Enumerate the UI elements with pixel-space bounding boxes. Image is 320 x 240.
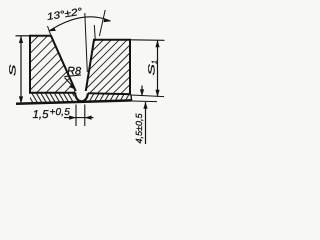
- left plate: [30, 36, 76, 93]
- angle leg line right: [99, 10, 105, 36]
- dimension S1 line: [157, 40, 159, 97]
- backing strip bottom edge extension right: [131, 100, 157, 103]
- plate top edge extension left: [16, 35, 31, 37]
- leader shelf R8: [65, 75, 82, 77]
- svg-text:1: 1: [152, 60, 159, 64]
- label S1: [147, 60, 159, 76]
- dimension S line: [20, 36, 22, 104]
- backing strip hatch right: [88, 94, 131, 103]
- strip top edge extension right: [131, 95, 164, 97]
- right groove face extension: [94, 25, 95, 41]
- plate top edge extension right: [130, 39, 165, 42]
- dimension 1,5 line: [64, 117, 94, 119]
- svg-text:4,5±0,5: 4,5±0,5: [134, 113, 144, 144]
- root notch in backing strip: [75, 91, 88, 101]
- arrow S1 top: [155, 40, 159, 47]
- arc arrow right: [104, 18, 111, 22]
- left groove face extension: [48, 26, 52, 36]
- label 1,5+0,5: [33, 107, 71, 121]
- dimension 1,5 extension line left: [75, 105, 77, 127]
- svg-text:R8: R8: [67, 66, 82, 78]
- arrow S1 bottom: [155, 90, 159, 97]
- arrow S bottom: [19, 96, 23, 103]
- arc arrow left: [49, 27, 56, 31]
- svg-text:S: S: [147, 64, 157, 75]
- angle dimension arc: [49, 17, 111, 31]
- joint centerline: [85, 13, 88, 72]
- svg-text:S: S: [8, 65, 18, 76]
- svg-text:1,5: 1,5: [33, 109, 50, 121]
- right plate: [86, 40, 130, 94]
- dimension 1,5 extension line right: [84, 105, 86, 127]
- dimension 4,5 upper arrow line: [141, 86, 143, 97]
- leader R8: [65, 78, 75, 89]
- dimension 4,5 lower arrow line: [145, 102, 147, 144]
- backing strip right edge: [130, 95, 133, 101]
- arrow S top: [19, 36, 23, 43]
- backing strip hatch left: [30, 93, 74, 103]
- svg-text:+0,5: +0,5: [50, 107, 71, 118]
- backing strip body: [30, 93, 131, 104]
- backing strip bottom edge: [16, 100, 131, 103]
